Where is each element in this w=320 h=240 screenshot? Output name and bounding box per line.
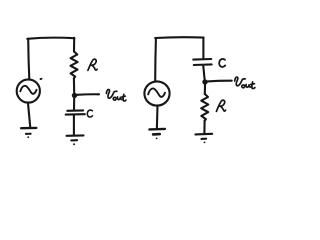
AC source V1 (left) bbox=[17, 79, 40, 102]
capacitor C2 bottom plate (right) bbox=[194, 63, 212, 66]
capacitor C1 bottom plate (left) bbox=[66, 113, 85, 116]
wire left circuit right drop to resistor bbox=[73, 38, 75, 52]
label Vout (right) bbox=[235, 77, 255, 88]
capacitor C2 top plate (right) bbox=[193, 58, 211, 61]
node junction dot (right) bbox=[202, 79, 207, 84]
wire node to capacitor (left) bbox=[73, 98, 75, 110]
AC source V2 (right) bbox=[144, 81, 169, 105]
wire right circuit left rail bbox=[154, 39, 157, 81]
wire resistor to node (left) bbox=[73, 78, 75, 92]
ground (left circuit, under C1) bbox=[67, 134, 84, 137]
resistor R1 (left) bbox=[71, 52, 78, 79]
stray ink dot near source top (left) bbox=[39, 77, 43, 80]
wire AC source to ground (left) bbox=[28, 103, 30, 127]
wire AC source to ground (right) bbox=[156, 106, 159, 128]
wire left circuit left rail bbox=[28, 39, 29, 79]
label R (left) bbox=[88, 59, 97, 70]
wire node to Vout (left) bbox=[77, 93, 99, 96]
label Vout (left) bbox=[106, 89, 126, 100]
wire capacitor to node (right) bbox=[203, 66, 204, 79]
wire right circuit right drop to capacitor bbox=[202, 38, 204, 58]
wire node to resistor (right) bbox=[204, 85, 206, 94]
wire left circuit top rail bbox=[27, 38, 74, 39]
label C (left) bbox=[87, 110, 92, 117]
ground (right circuit, under V2) bbox=[149, 128, 165, 131]
resistor R2 (right) bbox=[201, 94, 208, 121]
node junction dot (left) bbox=[72, 93, 77, 98]
label R (right) bbox=[216, 100, 225, 111]
label C (right) bbox=[219, 59, 225, 67]
capacitor C1 top plate (left) bbox=[67, 109, 83, 112]
wire resistor to ground (right) bbox=[203, 121, 205, 134]
wire node to Vout (right) bbox=[208, 80, 232, 83]
wire capacitor to ground (left) bbox=[73, 116, 75, 135]
wire right circuit top rail bbox=[155, 36, 203, 39]
ground (right circuit, under R2) bbox=[195, 133, 212, 136]
ground (left circuit, under V1) bbox=[21, 127, 36, 130]
